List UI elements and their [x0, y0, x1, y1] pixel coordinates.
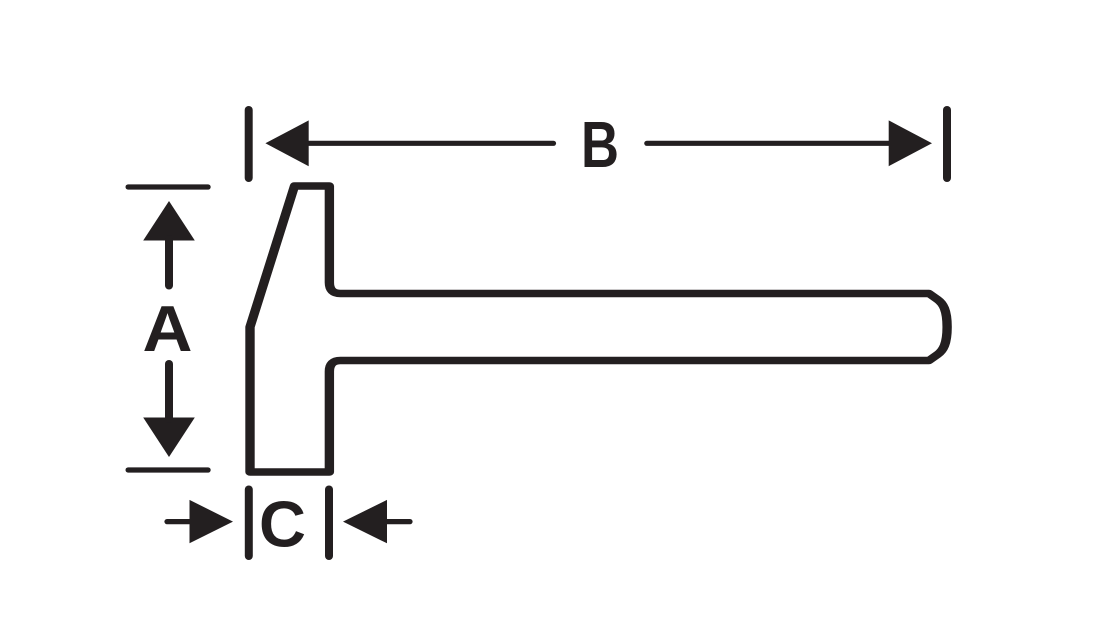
- dimension C left arrowhead: [190, 500, 234, 543]
- dimension C right tail line: [387, 519, 410, 524]
- dimension B line right segment: [647, 141, 891, 146]
- dimension C left tail line: [167, 519, 190, 524]
- dimension A upper line segment: [165, 239, 173, 286]
- dimension B line left segment: [306, 141, 554, 146]
- dimension B left arrowhead: [265, 120, 308, 166]
- dimension A lower line segment: [165, 364, 173, 419]
- dimension A bottom tick: [128, 467, 208, 472]
- svg-text:C: C: [259, 488, 306, 561]
- dimension A top tick: [128, 184, 208, 189]
- dimension A down arrowhead: [143, 418, 195, 458]
- dimension C right arrowhead: [343, 500, 387, 543]
- hammer outline: [250, 186, 947, 472]
- svg-text:B: B: [581, 108, 619, 181]
- dimension B left tick: [245, 110, 253, 178]
- dimension C left tick: [245, 490, 253, 557]
- dimension C right tick: [325, 490, 333, 557]
- dimension B right arrowhead: [889, 120, 932, 166]
- dimension B right tick: [943, 110, 951, 178]
- dimension A up arrowhead: [143, 201, 195, 241]
- svg-text:A: A: [143, 292, 193, 365]
